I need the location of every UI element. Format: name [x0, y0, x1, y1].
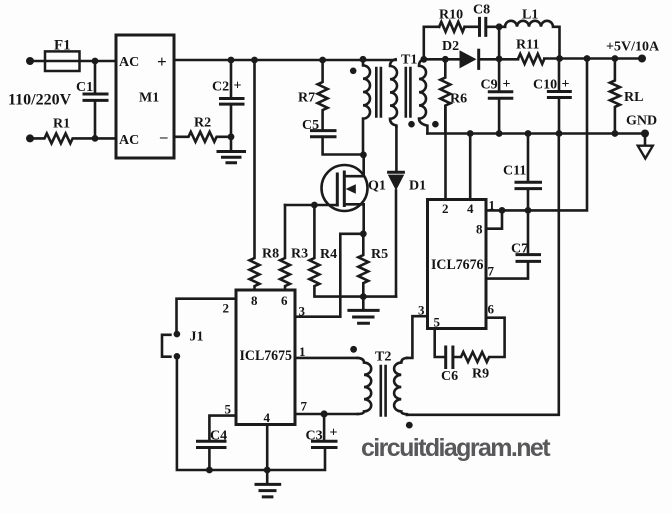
svg-text:D1: D1: [409, 179, 426, 194]
svg-text:J1: J1: [190, 330, 204, 345]
svg-text:3: 3: [418, 303, 425, 318]
svg-text:5: 5: [225, 402, 232, 417]
svg-text:circuitdiagram.net: circuitdiagram.net: [361, 434, 551, 462]
junction RL bottom: [612, 130, 619, 137]
svg-text:C1: C1: [76, 80, 93, 95]
resistor R3: [280, 205, 308, 290]
junction node C1 bottom: [92, 135, 99, 142]
resistor R9: [454, 318, 505, 382]
svg-text:7: 7: [301, 399, 308, 414]
svg-text:R6: R6: [450, 92, 467, 107]
wire R10 to C8: [465, 25, 479, 28]
svg-text:+: +: [330, 426, 338, 441]
wire output ground rail: [427, 132, 645, 135]
op-chip U2 ICL7676: [428, 200, 487, 329]
junction node C1 top: [92, 58, 99, 65]
wire C8 to L1 node: [487, 25, 506, 28]
svg-text:C2: C2: [212, 80, 229, 95]
resistor R4: [309, 205, 363, 297]
svg-text:4: 4: [467, 201, 474, 216]
svg-text:C9: C9: [481, 78, 498, 93]
resistor R6: [440, 59, 467, 133]
svg-text:8: 8: [476, 222, 483, 237]
ground mid: [349, 297, 378, 324]
resistor R7: [298, 60, 328, 130]
pin 1 of ICL7676 (node to +5V): [486, 59, 587, 213]
T2 secondary winding: [394, 358, 407, 415]
svg-text:ICL7675: ICL7675: [240, 348, 293, 364]
svg-text:C4: C4: [210, 429, 227, 444]
wire snubber top loop: [424, 27, 439, 60]
junction R4 top on gate wire: [311, 202, 318, 209]
junction T1 primary top: [360, 56, 367, 63]
svg-text:1: 1: [299, 344, 306, 359]
input terminal top: [26, 57, 34, 65]
svg-text:RL: RL: [624, 90, 643, 105]
svg-text:C5: C5: [302, 118, 319, 133]
svg-text:R5: R5: [371, 247, 388, 262]
wire L1 node down to D2 cathode: [498, 27, 501, 59]
T1 core right: [406, 68, 411, 117]
capacitor C1: [76, 61, 107, 138]
svg-text:1: 1: [489, 198, 496, 213]
diode D2: [442, 39, 479, 68]
svg-text:+: +: [503, 77, 511, 92]
svg-text:6: 6: [488, 302, 495, 317]
pin 7 of ICL7675 (wire to T2 primary bottom): [295, 399, 358, 415]
pin 8 of ICL7676: [476, 210, 502, 236]
pin 1 of ICL7675 (wire to T2 primary top): [295, 344, 358, 359]
wire AC line bottom into M1: [95, 137, 116, 140]
svg-text:C11: C11: [503, 164, 526, 179]
svg-text:C8: C8: [473, 3, 490, 18]
pin 2 of ICL7675 (wire to J1): [177, 299, 237, 331]
svg-text:C6: C6: [441, 369, 458, 384]
svg-text:+: +: [234, 79, 242, 94]
capacitor C2: [212, 60, 243, 137]
svg-text:C7: C7: [511, 242, 528, 257]
transformer T2: [350, 346, 412, 429]
svg-text:2: 2: [223, 301, 230, 316]
wire R5 node to D1 bottom: [363, 295, 396, 298]
svg-text:R1: R1: [53, 117, 70, 132]
capacitor C3: [306, 414, 338, 448]
T2 phasing dot secondary: [406, 422, 413, 429]
pin 5 of ICL7675 (wire to C4): [209, 402, 236, 441]
pin 4 of ICL7676: [467, 134, 474, 217]
junction snubber / L1 left: [496, 23, 503, 30]
svg-text:R3: R3: [291, 247, 308, 262]
junction L1 right node: [556, 55, 563, 62]
bridge rectifier M1: [116, 35, 174, 158]
svg-text:Q1: Q1: [368, 179, 386, 194]
resistor R1: [30, 117, 95, 144]
diode D1: [388, 127, 426, 297]
svg-text:R4: R4: [320, 247, 337, 262]
wire +5V rail: [479, 57, 642, 60]
junction C11 bottom / C7 top: [525, 207, 532, 214]
svg-text:L1: L1: [522, 8, 538, 23]
terminal GND: [626, 114, 657, 159]
wire T2 secondary bottom to ground rail: [407, 134, 559, 415]
junction R7 top: [319, 57, 326, 64]
svg-text:R11: R11: [516, 38, 539, 53]
capacitor C9: [481, 59, 512, 134]
junction C10 bottom: [556, 130, 563, 137]
junction R5 bottom node: [360, 293, 367, 300]
inductor L1: [505, 8, 560, 59]
junction +5V riser node: [584, 55, 591, 62]
svg-text:R2: R2: [194, 116, 211, 131]
T2 primary winding: [358, 358, 372, 414]
svg-text:R8: R8: [262, 247, 279, 262]
svg-text:AC: AC: [119, 133, 139, 148]
input terminal bottom: [26, 134, 34, 142]
svg-text:R10: R10: [439, 8, 463, 23]
pin 4 of ICL7675 (wire to ground): [264, 410, 271, 470]
junction pin4 ground node: [264, 467, 271, 474]
svg-text:R9: R9: [472, 367, 489, 382]
transformer T1: [350, 53, 439, 155]
svg-text:+: +: [157, 52, 167, 71]
svg-text:R7: R7: [298, 91, 315, 106]
junction T1 primary bottom / Q1 drain: [360, 151, 367, 158]
junction RL top: [612, 55, 619, 62]
capacitor C4: [198, 429, 228, 471]
capacitor C5: [302, 118, 363, 155]
terminal +5V/10A: [606, 40, 660, 63]
svg-text:110/220V: 110/220V: [8, 92, 72, 109]
wire Q1 gate: [285, 204, 337, 207]
svg-text:GND: GND: [626, 114, 657, 129]
pin 2 of ICL7676 (wire to T1 rail): [442, 108, 449, 216]
wire DC+ top rail: [174, 59, 396, 62]
svg-text:4: 4: [264, 410, 271, 425]
junction Q1 source node: [360, 230, 367, 237]
ground bottom: [256, 470, 280, 497]
svg-text:–: –: [159, 130, 168, 146]
wire J1 to bottom rail: [177, 360, 325, 470]
svg-text:D2: D2: [442, 39, 459, 54]
capacitor C7: [486, 210, 540, 278]
capacitor C10: [533, 59, 570, 134]
junction pin1/pin8: [499, 207, 506, 214]
svg-text:M1: M1: [139, 91, 159, 106]
pin 3 of ICL7676 (wire to T2 secondary top): [407, 303, 428, 358]
MOSFET Q1: [322, 155, 386, 234]
jumper J1: [162, 330, 204, 360]
wire Q1 source to pin3 riser: [295, 234, 363, 317]
svg-text:C10: C10: [533, 78, 557, 93]
junction C9 bottom: [496, 130, 503, 137]
op-chip U1 ICL7675: [236, 290, 295, 425]
T1 feedback winding: [390, 59, 397, 127]
T2 core: [381, 366, 386, 416]
fuse F1: [45, 38, 80, 72]
svg-text:C3: C3: [306, 429, 323, 444]
T1 secondary winding: [419, 59, 427, 133]
junction R8 column top: [251, 57, 258, 64]
wire T1 secondary top to D2 anode: [424, 58, 460, 61]
pin 5 of ICL7676 (wire to C6): [434, 315, 445, 358]
capacitor C6: [441, 347, 458, 384]
T1 phasing dot feedback: [408, 121, 415, 128]
resistor R5: [358, 234, 388, 297]
svg-text:3: 3: [299, 304, 306, 319]
junction R6 top: [442, 56, 449, 63]
svg-text:T1: T1: [401, 53, 417, 68]
svg-text:+5V/10A: +5V/10A: [606, 40, 660, 55]
svg-text:6: 6: [281, 293, 288, 308]
capacitor C8: [473, 3, 490, 36]
T2 phasing dot primary: [350, 346, 357, 353]
junction C3 top: [321, 410, 328, 417]
capacitor C11: [503, 134, 541, 211]
junction C2 top: [228, 57, 235, 64]
T1 primary winding: [363, 59, 370, 155]
T1 phasing dot primary: [350, 68, 357, 75]
svg-text:8: 8: [251, 293, 258, 308]
junction pin4 column top: [467, 130, 474, 137]
junction C11 column top: [525, 130, 532, 137]
resistor RL: [610, 59, 644, 134]
resistor R10: [439, 8, 465, 32]
junction T1 secondary top: [420, 56, 427, 63]
T1 phasing dot secondary: [432, 121, 439, 128]
svg-text:5: 5: [434, 315, 441, 330]
svg-text:F1: F1: [54, 38, 71, 54]
svg-text:AC: AC: [119, 55, 139, 70]
resistor R11: [516, 38, 544, 64]
resistor R2: [174, 116, 231, 142]
svg-text:+: +: [562, 77, 570, 92]
junction D2 cathode node: [496, 56, 503, 63]
ground below C2: [218, 137, 245, 163]
resistor R8: [250, 60, 280, 290]
svg-text:ICL7676: ICL7676: [431, 257, 484, 273]
svg-text:2: 2: [442, 201, 449, 216]
T1 core left: [376, 68, 381, 117]
junction C2 bottom: [228, 133, 235, 140]
svg-text:7: 7: [488, 264, 495, 279]
wire AC line top: [30, 60, 116, 63]
junction C4 bottom: [206, 467, 213, 474]
svg-text:T2: T2: [375, 350, 391, 365]
